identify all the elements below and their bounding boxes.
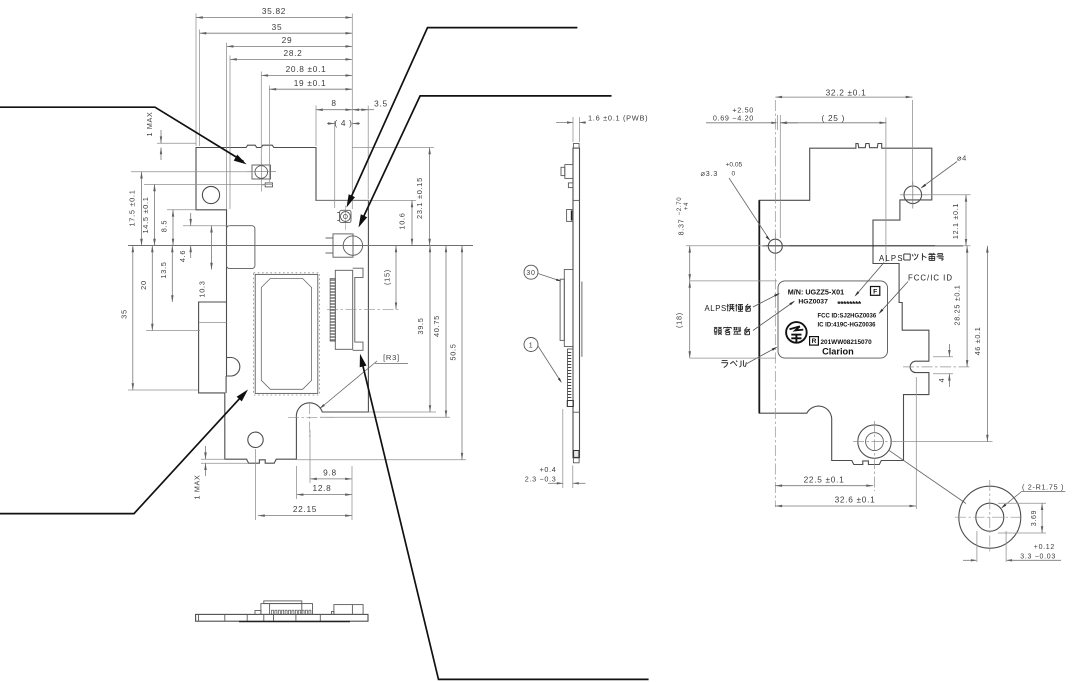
callout text customer model name (Japanese) [714, 326, 718, 328]
svg-text:35: 35 [272, 22, 283, 32]
side view edge ticks [573, 199, 580, 201]
svg-text:9.8: 9.8 [323, 468, 337, 478]
svg-text:F: F [873, 288, 877, 295]
svg-text:R: R [812, 338, 817, 345]
dimension 22.15 [258, 515, 352, 517]
dimension 19 +-0.1 [269, 88, 352, 90]
svg-text:8: 8 [331, 98, 336, 108]
boss hole bottom [858, 425, 891, 458]
leader label [747, 347, 777, 363]
svg-text:2.3 −0.3: 2.3 −0.3 [525, 474, 557, 483]
dimension 32.2 +-0.1 [775, 96, 912, 98]
svg-text:( 2-R1.75 ): ( 2-R1.75 ) [1022, 483, 1064, 492]
dimension 35.82 [196, 17, 352, 19]
dimension 23.1 +-0.15 [429, 148, 431, 246]
hole dia 3.3 [768, 239, 782, 253]
bottom view FFC connector [261, 604, 313, 615]
dimension 20 [146, 330, 200, 332]
svg-text:10.3: 10.3 [198, 280, 207, 297]
component below antenna connector [265, 183, 272, 187]
mounting hole bottom [248, 432, 263, 447]
dimension 3.5 [352, 109, 368, 111]
bottom view board bar [196, 614, 368, 621]
svg-text:( 25 ): ( 25 ) [822, 113, 846, 123]
back view dark centerline [763, 245, 963, 247]
side view coax profile [567, 210, 573, 222]
svg-text:13.5: 13.5 [159, 261, 168, 278]
extension lines right of front view [352, 147, 434, 149]
balloon 30 [524, 265, 538, 279]
label giteki mark [786, 322, 807, 343]
bottom view dark bottom segment [239, 621, 350, 623]
dimension 32.6 +-0.1 [915, 377, 917, 509]
dimension 1 MAX (bottom) [201, 458, 225, 460]
back view PCB outline [759, 144, 932, 465]
side view bracket bottom tab [573, 458, 579, 463]
svg-text:28.25 ±0.1: 28.25 ±0.1 [953, 285, 962, 326]
dimension 8 [316, 109, 352, 111]
svg-text:8.37: 8.37 [677, 219, 686, 236]
svg-text:20.8 ±0.1: 20.8 ±0.1 [286, 64, 327, 74]
svg-text:⌀3.3: ⌀3.3 [701, 169, 719, 178]
label sticker outline [778, 281, 888, 358]
label R mark [810, 337, 819, 346]
svg-text:28.2: 28.2 [284, 48, 303, 58]
leader ALPS model name [753, 294, 779, 307]
svg-text:40.75: 40.75 [432, 315, 441, 337]
bottom view coax connector block [334, 605, 363, 615]
svg-text:22.15: 22.15 [293, 504, 317, 514]
edge segment below U-notch [225, 376, 227, 393]
side view u.FL profile [568, 183, 573, 188]
extension lines bottom of front view [309, 430, 311, 483]
antenna connector J1 [252, 165, 271, 179]
shield can inner chamfered lid [261, 279, 311, 390]
side view bracket top tab [573, 144, 579, 149]
dimension (4) [327, 123, 335, 125]
leader ALPS lot number [856, 263, 885, 296]
svg-text:12.8: 12.8 [313, 483, 332, 493]
side view label sheet on back [581, 282, 583, 357]
leader to detail view [889, 450, 967, 504]
dimension (25) [780, 122, 886, 124]
svg-text:4: 4 [937, 378, 946, 383]
svg-text:23.1 ±0.15: 23.1 ±0.15 [415, 177, 424, 219]
svg-text:29: 29 [282, 35, 293, 45]
svg-text:3.5: 3.5 [374, 99, 388, 109]
side view bracket dark strip [574, 451, 579, 458]
dimension 50.5 [461, 246, 463, 460]
svg-text:0: 0 [732, 170, 736, 177]
dimension (18) [690, 357, 776, 359]
svg-text:1: 1 [529, 342, 534, 349]
dimension 8.37 +4/-2.70 [686, 245, 766, 247]
dimension 14.5 +-0.1 [144, 183, 273, 185]
svg-text:(18): (18) [675, 312, 684, 328]
dimension 1 MAX (top) [157, 142, 196, 144]
detail view hole circle [976, 503, 1004, 531]
svg-text:8.5: 8.5 [160, 220, 169, 232]
leader customer model name [753, 302, 794, 331]
dimension 2.3 +0.4/-0.3 [562, 409, 564, 488]
side view shield profile [564, 270, 573, 347]
dimension 10.6 [411, 200, 413, 245]
bracket edge line [199, 322, 227, 324]
svg-text:32.2 ±0.1: 32.2 ±0.1 [826, 87, 867, 97]
svg-text:14.5 ±0.1: 14.5 ±0.1 [141, 196, 150, 233]
svg-text:IC ID:419C-HGZ0036: IC ID:419C-HGZ0036 [818, 323, 877, 329]
R3 corner centerline cross [309, 403, 311, 437]
svg-text:ALPS: ALPS [705, 304, 727, 313]
side view FFC profile [568, 349, 574, 407]
svg-text:4.6: 4.6 [178, 250, 187, 262]
leader arrow to shield can [0, 393, 245, 514]
dimension 12.8 [297, 494, 352, 496]
svg-text:35: 35 [120, 309, 129, 319]
svg-text:17.5 ±0.1: 17.5 ±0.1 [128, 189, 137, 226]
svg-text:1 MAX: 1 MAX [193, 474, 202, 499]
svg-text:********: ******** [837, 299, 862, 309]
leader FCC/IC ID [880, 282, 909, 314]
svg-text:+0.4: +0.4 [540, 465, 557, 474]
FFC connector pin strip [330, 279, 335, 342]
FFC connector body [335, 270, 352, 349]
dimension 39.5 [429, 246, 431, 413]
svg-text:FCC/IC ID: FCC/IC ID [908, 273, 953, 282]
svg-text:1.6 ±0.1 (PWB): 1.6 ±0.1 (PWB) [588, 114, 648, 123]
callout text label (Japanese) [722, 360, 728, 362]
hole dia 4 [904, 186, 922, 204]
svg-text:(15): (15) [383, 269, 392, 285]
dimension 35 [200, 32, 353, 34]
svg-text:50.5: 50.5 [449, 343, 458, 360]
dimension 10.3 [211, 226, 213, 270]
svg-text:46 ±0.1: 46 ±0.1 [973, 327, 982, 356]
dimension 28.2 [230, 58, 352, 60]
leader arrow to FFC connector [361, 358, 649, 680]
svg-text:HGZ0037: HGZ0037 [798, 299, 828, 306]
svg-text:12.1 ±0.1: 12.1 ±0.1 [951, 203, 960, 239]
coax connector on centerline [333, 234, 353, 257]
side view PCB [573, 148, 580, 458]
svg-text:1 MAX: 1 MAX [145, 111, 154, 136]
extension lines of top dimensions [199, 30, 201, 147]
u.FL connector centerline [344, 206, 346, 231]
svg-text:20: 20 [139, 280, 148, 290]
dimension 13.5 [171, 246, 173, 303]
svg-text:30: 30 [526, 270, 535, 277]
slot centerline [903, 366, 972, 368]
svg-text:3.69: 3.69 [1031, 510, 1038, 526]
dimension (15) [395, 246, 397, 310]
svg-text:+0.05: +0.05 [726, 161, 743, 168]
svg-text:FCC ID:SJ2HGZ0036: FCC ID:SJ2HGZ0036 [818, 313, 877, 319]
extension lines back view top [912, 100, 914, 188]
balloon 1 [524, 338, 538, 352]
dimension 17.5 +-0.1 [131, 171, 252, 173]
svg-text:0.69 −4.20: 0.69 −4.20 [713, 113, 754, 122]
bracket tab block [227, 226, 255, 269]
svg-text:39.5: 39.5 [416, 317, 425, 334]
front view horizontal centerline [128, 245, 473, 247]
svg-text:201WW08215070: 201WW08215070 [821, 339, 873, 346]
label F mark [871, 287, 880, 296]
dimension 3.3 +0.12/-0.03 [976, 531, 978, 562]
svg-text:⌀4: ⌀4 [957, 153, 967, 162]
detail view boss circle [959, 486, 1021, 548]
dimension 40.75 [445, 246, 447, 418]
svg-text:[R3]: [R3] [383, 353, 400, 362]
u.FL connector [340, 210, 351, 222]
dimension 46 +-0.1 [893, 441, 993, 443]
detail view centerlines [955, 516, 1020, 518]
leader arrow to antenna connector [0, 107, 244, 161]
svg-text:35.82: 35.82 [262, 6, 286, 16]
back view emphasized left edge [758, 200, 760, 413]
FFC connector right tabs [353, 268, 363, 350]
shield can outline [254, 273, 320, 395]
svg-text:M/N: UGZZ5-X01: M/N: UGZZ5-X01 [788, 287, 844, 296]
dimension 22.5 +-0.1 [775, 485, 873, 487]
dimension 9.8 [310, 478, 352, 480]
leader arrow to coax connector [360, 96, 611, 224]
dimension 8.5 [167, 209, 196, 211]
dimension 1.6 +-0.1 (PWB) [572, 117, 574, 142]
dimension 0.69 +2.50/-4.20 [706, 122, 777, 124]
dimension 28.25 +-0.1 [966, 246, 968, 367]
front view PCB outline [196, 145, 368, 463]
dimension 20.8 +-0.1 [261, 74, 352, 76]
svg-text:ALPS: ALPS [879, 254, 904, 263]
svg-text:Clarion: Clarion [822, 347, 854, 357]
svg-text:10.6: 10.6 [398, 212, 407, 229]
svg-text:22.5 ±0.1: 22.5 ±0.1 [804, 474, 845, 484]
svg-text:( 4 ): ( 4 ) [334, 118, 352, 128]
leader arrow to u.FL connector [348, 28, 577, 204]
svg-text:−2.70: −2.70 [677, 197, 683, 216]
svg-text:19 ±0.1: 19 ±0.1 [294, 78, 327, 88]
svg-text:+4: +4 [684, 202, 690, 210]
dimension 12.1 +-0.1 [922, 194, 971, 196]
dimension 35 (vertical) [128, 389, 199, 391]
dimension 4.6 [183, 225, 230, 227]
dimension 3.69 [998, 502, 1046, 504]
mounting hole top-left [202, 186, 219, 203]
svg-text:3.3 −0.03: 3.3 −0.03 [1020, 553, 1056, 560]
dimension 29 [227, 45, 353, 47]
svg-text:+0.12: +0.12 [1034, 544, 1055, 551]
dimension 4 (slot) [933, 356, 953, 358]
side view antenna connector profile [565, 165, 573, 179]
svg-text:32.6 ±0.1: 32.6 ±0.1 [835, 495, 876, 505]
